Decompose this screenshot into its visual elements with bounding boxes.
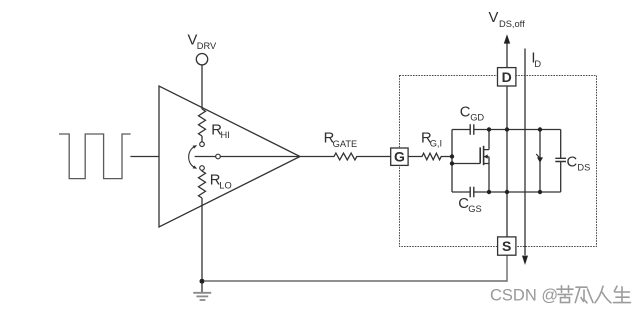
svg-text:D: D [534, 59, 541, 69]
svg-text:DRV: DRV [197, 41, 217, 51]
svg-text:V: V [489, 10, 499, 26]
svg-text:DS: DS [577, 163, 590, 173]
svg-text:GD: GD [470, 113, 484, 123]
svg-text:S: S [502, 238, 511, 254]
svg-text:LO: LO [219, 180, 231, 190]
svg-text:D: D [502, 69, 512, 85]
svg-text:C: C [567, 155, 578, 171]
svg-text:DS,off: DS,off [499, 19, 525, 29]
svg-text:HI: HI [221, 130, 230, 140]
svg-text:CSDN @: CSDN @ [490, 286, 558, 304]
svg-text:G: G [394, 149, 405, 165]
svg-text:G,I: G,I [430, 138, 442, 148]
svg-text:C: C [460, 105, 471, 121]
svg-text:GATE: GATE [333, 139, 358, 149]
svg-text:GS: GS [468, 204, 481, 214]
